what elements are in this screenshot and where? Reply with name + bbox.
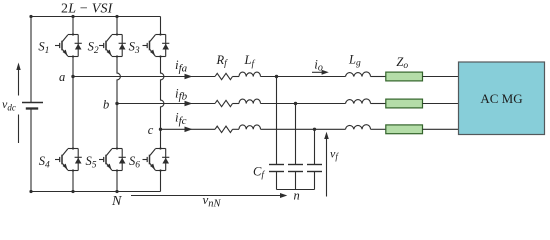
capacitor Cf phase b plates <box>288 164 303 166</box>
svg-text:c: c <box>148 123 154 137</box>
svg-text:S1: S1 <box>38 40 49 56</box>
capacitor Cf phase c plates <box>307 164 322 166</box>
module feed joint dots <box>72 33 162 171</box>
capacitor Cf branch b wire down <box>295 104 297 165</box>
svg-text:Rf: Rf <box>216 53 229 69</box>
inductor Lg phase b <box>346 99 371 104</box>
svg-text:ifa: ifa <box>175 57 188 74</box>
wire leg2 S5 to bottom rail <box>116 171 118 192</box>
wire capacitor star point bar n <box>277 189 315 191</box>
svg-text:vnN: vnN <box>203 192 222 210</box>
junction dot capacitor tap phase b <box>294 102 297 105</box>
wire phase b resistor to inductor <box>233 103 240 105</box>
node c junction dot <box>159 128 162 131</box>
impedance Zo phase c (green box) <box>386 125 423 134</box>
inductor Lg phase c <box>346 125 371 130</box>
svg-text:n: n <box>294 189 300 203</box>
capacitor Cf branch a wire to star point <box>276 172 278 190</box>
transistor S1 (IGBT + diode) <box>55 35 82 57</box>
transistor S4 (IGBT + diode) <box>55 149 82 171</box>
svg-text:io: io <box>314 56 323 73</box>
capacitor Cf phase a plates <box>269 164 284 166</box>
wire leg2 S2 down with hop over phase a <box>117 57 120 149</box>
transistor S2 (IGBT + diode) <box>99 35 126 57</box>
capacitor Cf branch c wire to star point <box>314 172 316 190</box>
wire phase b inductor to Lg <box>261 103 346 105</box>
impedance Zo phase b (green box) <box>386 99 423 108</box>
svg-text:b: b <box>103 97 109 111</box>
wire leg1 S4 to bottom rail <box>72 171 74 192</box>
wire phase b Zo to AC MG <box>423 103 459 105</box>
svg-text:2L − VSI: 2L − VSI <box>61 2 114 17</box>
wire leg3 rail to S3 <box>160 17 162 35</box>
wire phase a Lg to Zo <box>371 76 386 78</box>
transistor S6 (IGBT + diode) <box>143 149 170 171</box>
wire leg1 S1 to S4 through node a <box>72 57 74 149</box>
junction dot capacitor tap phase a <box>275 75 278 78</box>
wire phase a resistor to inductor <box>233 76 240 78</box>
wire phase c resistor to inductor <box>233 128 240 130</box>
wire phase a inductor to Lg <box>261 76 346 78</box>
svg-text:S6: S6 <box>129 154 140 170</box>
resistor Rf phase a <box>215 73 233 79</box>
vnN voltage arrow from N to n <box>131 193 287 198</box>
wire leg2 rail to S2 <box>116 17 118 35</box>
current arrow i_fb <box>185 101 193 107</box>
junction dot bottom rail leg1 <box>71 190 74 193</box>
capacitor Cf branch a wire down <box>276 77 278 165</box>
wire phase c Zo to AC MG <box>423 128 459 130</box>
node a junction dot <box>71 75 74 78</box>
wire bottom rail N <box>31 191 161 193</box>
svg-text:ifc: ifc <box>175 110 187 127</box>
wire phase c Lg to Zo <box>371 128 386 130</box>
wire phase c from node c to resistor <box>161 128 216 130</box>
inductor Lf phase c <box>239 125 261 129</box>
svg-text:Lf: Lf <box>244 53 256 69</box>
svg-text:ifb: ifb <box>175 85 188 102</box>
battery Vdc source short plate <box>26 107 38 109</box>
junction dot bottom rail leg2 <box>115 190 118 193</box>
junction dot bottom rail left <box>29 190 32 193</box>
wire leg3 S3 down with hops over phase a and b <box>161 57 164 149</box>
junction dot top rail left <box>29 15 32 18</box>
svg-text:a: a <box>59 70 65 84</box>
svg-text:S4: S4 <box>39 154 50 170</box>
vf voltage arrow <box>324 132 329 197</box>
current arrow i_fa <box>185 74 193 80</box>
svg-text:S3: S3 <box>129 40 140 56</box>
wire DC-link lower segment <box>30 109 32 192</box>
wire phase a from node a to resistor <box>73 76 215 78</box>
capacitor Cf branch b wire to star point <box>295 172 297 190</box>
inductor Lg phase a <box>346 72 371 77</box>
svg-text:Zo: Zo <box>396 55 408 71</box>
svg-text:N: N <box>111 194 122 209</box>
current arrow i_fc <box>185 127 193 133</box>
svg-text:Cf: Cf <box>253 164 265 180</box>
wire leg1 rail to S1 <box>72 17 74 35</box>
wire leg3 S6 to bottom rail <box>160 171 162 192</box>
svg-text:vf: vf <box>330 146 339 161</box>
wire top DC rail <box>31 16 161 18</box>
svg-text:S5: S5 <box>86 154 97 170</box>
capacitor Cf branch c wire down <box>314 129 316 164</box>
junction dot top rail leg1 <box>71 15 74 18</box>
transistor S5 (IGBT + diode) <box>99 149 126 171</box>
wire phase a Zo to AC MG <box>423 76 459 78</box>
wire phase b from node b to resistor <box>117 103 215 105</box>
svg-text:S2: S2 <box>88 40 99 56</box>
wire phase c inductor to Lg <box>261 128 346 130</box>
wire phase b Lg to Zo <box>371 103 386 105</box>
resistor Rf phase b <box>215 100 233 106</box>
svg-text:AC MG: AC MG <box>480 91 522 106</box>
battery Vdc source long plate <box>22 102 43 104</box>
inductor Lf phase a <box>239 72 261 76</box>
impedance Zo phase a (green box) <box>386 72 423 81</box>
transistor S3 (IGBT + diode) <box>143 35 170 57</box>
inductor Lf phase b <box>239 99 261 103</box>
svg-text:vdc: vdc <box>2 97 16 112</box>
wire DC-link upper segment <box>30 17 32 103</box>
svg-text:Lg: Lg <box>348 52 361 68</box>
current arrow i_o above phase a <box>312 70 329 75</box>
node b junction dot <box>115 102 118 105</box>
resistor Rf phase c <box>215 126 233 132</box>
junction dot capacitor tap phase c <box>313 128 316 131</box>
block AC MG (microgrid) <box>459 62 545 135</box>
junction dot top rail leg2 <box>115 15 118 18</box>
vdc voltage arrow <box>16 63 20 144</box>
